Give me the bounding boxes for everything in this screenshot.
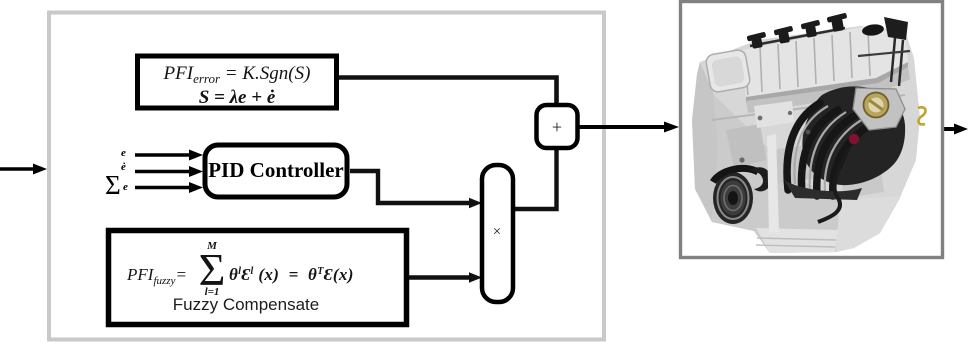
engine plant box — [681, 2, 943, 258]
ignition coil 2 — [774, 26, 794, 44]
label input sum-e — [105, 172, 121, 199]
small dark fasteners — [758, 116, 763, 121]
manifold runners descending — [787, 103, 872, 196]
runner gap highlights — [794, 106, 863, 193]
yellow dipstick hook — [918, 107, 925, 124]
wire error-box to plus — [339, 78, 557, 106]
ignition coil 3 — [801, 20, 821, 38]
summer block — [537, 105, 578, 148]
controller outer box — [49, 13, 604, 340]
oil pan highlight — [756, 228, 838, 253]
block texture patches — [726, 124, 766, 168]
head upper band — [746, 67, 910, 113]
label input edot — [121, 161, 126, 173]
fuzzy compensate box — [109, 231, 407, 325]
wire engine output — [944, 127, 958, 131]
label sum-e superscript e — [123, 181, 128, 193]
wire input arrow — [0, 164, 47, 175]
multiplier block — [482, 165, 513, 302]
valve cover — [742, 27, 908, 97]
block mid facets — [712, 95, 840, 253]
block highlight strip — [767, 134, 779, 233]
wire PID to multiplier — [350, 171, 473, 203]
oil cap — [861, 23, 884, 37]
engine body silhouette — [692, 26, 920, 253]
label fuzzy big sigma — [195, 247, 229, 293]
manifold collector base — [784, 180, 862, 200]
arrowhead fuzzy->mult — [469, 272, 482, 282]
block lower-right facet — [836, 196, 900, 252]
wire plus to engine — [578, 125, 668, 129]
ignition coil 4 — [827, 13, 848, 32]
crank pulley — [713, 172, 753, 224]
intake manifold plenum — [802, 86, 905, 185]
arrows e / edot / sigma-e into PID — [135, 150, 203, 194]
valve cover rib lines — [744, 30, 870, 95]
engine block left facet shading — [692, 62, 718, 222]
belt over pulley — [713, 168, 758, 182]
right top bracket — [884, 17, 908, 40]
label PID Controller — [205, 158, 347, 183]
cam cover end plate (left raised panel) — [705, 49, 751, 93]
wire multiplier to plus — [513, 150, 557, 209]
label fuzzy formula PFI_fuzzy= — [127, 265, 187, 285]
head gasket line — [712, 95, 905, 120]
label fuzzy sigma upper M — [198, 240, 226, 252]
ignition coil 1 — [747, 32, 767, 49]
oil pan ridge lines — [756, 238, 836, 247]
throttle bore gold ring — [864, 93, 889, 118]
label fuzzy compensate caption — [120, 295, 372, 315]
harness cable — [818, 148, 848, 222]
idler bracket hook — [750, 167, 771, 191]
ignition coil rail — [750, 28, 845, 46]
label input e — [121, 147, 126, 159]
PID controller box — [205, 145, 347, 197]
arrowhead PID->mult — [469, 198, 482, 208]
sliding-mode error box — [138, 56, 337, 108]
label PFI error formula — [138, 63, 336, 108]
label fuzzy sigma lower l=1 — [198, 286, 226, 298]
valve cover lower edge shadow — [746, 62, 908, 103]
label fuzzy theta terms — [229, 265, 354, 285]
throttle body housing — [853, 88, 905, 130]
red sensor knob — [849, 134, 859, 144]
wire fuzzy to multiplier — [408, 275, 473, 279]
